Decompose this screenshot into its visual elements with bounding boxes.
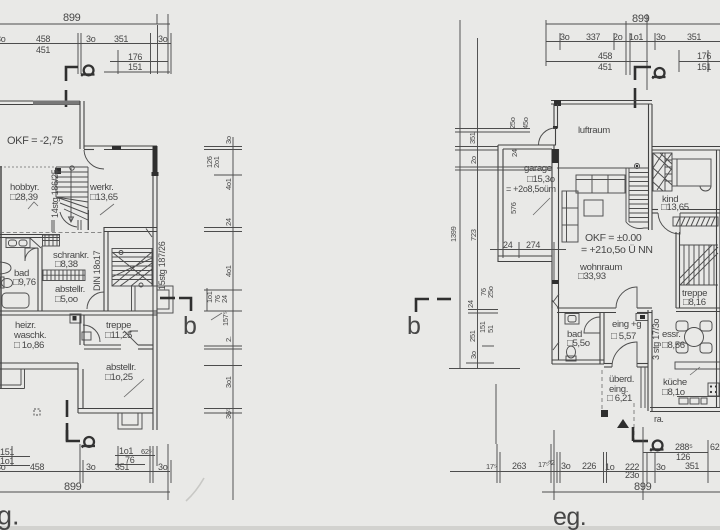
dim 899 top right [546, 23, 720, 25]
svg-text:□33,93: □33,93 [578, 271, 606, 282]
extension verticals top [77, 33, 79, 74]
svg-text:51: 51 [486, 325, 495, 333]
svg-text:3o: 3o [560, 32, 570, 42]
treppe stair [680, 245, 718, 285]
garage [497, 145, 499, 262]
svg-text:4o1: 4o1 [224, 265, 233, 277]
sofa left [562, 191, 578, 242]
section marker bottom right [632, 427, 635, 441]
svg-text:351: 351 [687, 32, 701, 42]
svg-text:3o1: 3o1 [224, 376, 233, 388]
svg-text:= +21o,5o Ü NN: = +21o,5o Ü NN [581, 244, 653, 256]
svg-text:274: 274 [526, 240, 540, 250]
svg-text:□13,65: □13,65 [90, 192, 118, 203]
mid wall [0, 310, 157, 312]
svg-text:3o: 3o [158, 34, 168, 44]
svg-text:garage: garage [524, 163, 552, 174]
luftraum right wall [648, 104, 650, 230]
bad door arc [25, 248, 38, 261]
vanity 2 sinks [6, 238, 41, 248]
svg-text:226: 226 [582, 461, 596, 471]
svg-text:25o: 25o [486, 286, 495, 298]
svg-text:3o: 3o [86, 34, 96, 44]
faint scan artifact curve [186, 478, 204, 501]
svg-text:899: 899 [64, 481, 82, 493]
door heizr [83, 325, 100, 342]
svg-text:OKF = -2,75: OKF = -2,75 [7, 135, 63, 147]
garage bottom wall [498, 255, 552, 257]
right vertical dim column x=233 [204, 137, 242, 500]
svg-text:17⁵: 17⁵ [486, 462, 497, 471]
svg-text:451: 451 [36, 45, 50, 55]
sink row [677, 397, 720, 405]
svg-text:351: 351 [685, 461, 699, 471]
svg-text:□28,39: □28,39 [10, 192, 38, 203]
svg-text:□8,38: □8,38 [55, 259, 78, 270]
bad bottom wall [552, 359, 604, 361]
section line b bottom [66, 400, 69, 417]
partition bad/eing [599, 313, 601, 364]
svg-text:176: 176 [697, 51, 711, 61]
right edge wall [716, 150, 718, 407]
rotated b symbol top [81, 66, 95, 77]
abstellr room [77, 363, 79, 413]
counter essr/küche [675, 362, 720, 369]
left edge wall [0, 166, 2, 388]
kind room top wall [652, 146, 720, 148]
svg-text:= +2o8,5oüm: = +2o8,5oüm [506, 184, 556, 194]
el panel box [636, 314, 648, 321]
svg-text:3o: 3o [656, 462, 666, 472]
svg-text:□ 5,57: □ 5,57 [611, 331, 636, 342]
svg-text:451: 451 [598, 62, 612, 72]
svg-text:15stg 187/26: 15stg 187/26 [157, 241, 167, 290]
svg-text:36⁵: 36⁵ [224, 408, 233, 419]
svg-text:□8,56: □8,56 [662, 340, 685, 351]
left vertical dims of right plan [449, 20, 530, 369]
eing bottom wall + door [604, 363, 612, 365]
eing right wall [647, 310, 649, 411]
svg-text:3o: 3o [158, 462, 168, 472]
svg-text:251: 251 [468, 330, 477, 342]
top wall right plan [551, 100, 652, 102]
top wall [0, 100, 80, 102]
svg-text:□9,76: □9,76 [13, 277, 36, 288]
svg-text:576: 576 [509, 202, 518, 214]
svg-text:337: 337 [586, 32, 600, 42]
svg-text:263: 263 [512, 461, 526, 471]
kind bottom wall + door [652, 209, 658, 211]
treppe bottom wall [676, 307, 720, 309]
lightwell below abstellr [118, 413, 142, 429]
svg-text:151: 151 [697, 62, 711, 72]
svg-text:2o: 2o [469, 156, 478, 164]
svg-text:24: 24 [466, 300, 475, 308]
svg-text:□13,65: □13,65 [661, 202, 689, 213]
luftraum left wall [553, 104, 555, 128]
svg-text:351: 351 [468, 132, 477, 144]
section marker right top [635, 67, 651, 80]
svg-text:24: 24 [510, 149, 519, 157]
section line through lightwell [160, 297, 175, 300]
svg-text:□5,oo: □5,oo [55, 294, 78, 305]
kind closet hatched [653, 153, 672, 191]
kind bed [672, 159, 711, 191]
svg-text:2.: 2. [224, 336, 233, 342]
wall right of schrankr [103, 227, 105, 311]
section marker b left [416, 299, 429, 312]
svg-text:□1o,25: □1o,25 [105, 372, 133, 383]
svg-text:b: b [407, 312, 421, 340]
small square symbol [34, 409, 40, 415]
svg-text:25o: 25o [508, 117, 517, 129]
svg-text:ra.: ra. [654, 414, 664, 424]
schrankr door frame marks [51, 220, 53, 232]
svg-text:24: 24 [503, 240, 513, 250]
step wall [84, 145, 157, 147]
svg-text:24: 24 [224, 218, 233, 226]
svg-text:62⁵: 62⁵ [710, 442, 720, 452]
treppe bottom wall + door [84, 344, 121, 346]
wall werkr left [88, 210, 90, 230]
svg-text:3o: 3o [561, 461, 571, 471]
wc top [565, 314, 579, 325]
door abstellr to hall [87, 292, 104, 309]
svg-text:723: 723 [469, 229, 478, 241]
küche bottom wall [650, 407, 720, 409]
svg-text:458: 458 [30, 462, 44, 472]
garage door lines [470, 166, 552, 168]
svg-text:3o: 3o [86, 462, 96, 472]
south wall heizr [0, 362, 78, 364]
svg-text:458: 458 [36, 34, 50, 44]
wohnraum bottom wall [557, 307, 616, 309]
svg-text:4o1: 4o1 [224, 178, 233, 190]
svg-text:176: 176 [128, 52, 142, 62]
svg-text:3 stg 17/3o: 3 stg 17/3o [651, 318, 661, 360]
dim ticks right of b [204, 288, 242, 311]
stair 14stg [55, 166, 88, 230]
svg-text:□ 1o,86: □ 1o,86 [14, 340, 44, 351]
svg-text:76: 76 [125, 455, 135, 465]
bevel at wall bottom [552, 300, 559, 308]
dim line second top [0, 43, 171, 45]
section marker b top [66, 67, 78, 81]
svg-text:3o: 3o [0, 34, 6, 44]
west wall window marks below garage [552, 280, 559, 284]
werkr bottom wall [104, 227, 157, 229]
dotted terrace line [0, 166, 61, 168]
svg-text:288⁵: 288⁵ [675, 442, 693, 452]
svg-text:luftraum: luftraum [578, 125, 610, 136]
stairwell 15stg [112, 229, 152, 312]
svg-text:□8,16: □8,16 [683, 297, 706, 308]
rotated b symbol bottom [82, 437, 96, 448]
hatched wardrobe block [43, 235, 60, 246]
svg-text:3o: 3o [656, 32, 666, 42]
right wall upper [79, 101, 81, 149]
north triangle [617, 419, 629, 428]
svg-text:24: 24 [220, 295, 229, 303]
svg-text:2o1: 2o1 [212, 156, 221, 168]
dashed line over bad/schrankr [0, 232, 104, 234]
svg-text:1o1: 1o1 [629, 32, 643, 42]
toilet ovals left [0, 262, 13, 288]
bathtub [2, 293, 29, 308]
svg-text:3o: 3o [224, 136, 233, 144]
door at luftraum left [553, 126, 558, 129]
svg-text:g.: g. [0, 501, 20, 530]
svg-text:458: 458 [598, 51, 612, 61]
outside stair left [0, 369, 25, 389]
svg-text:151: 151 [128, 62, 142, 72]
svg-text:45o: 45o [521, 117, 530, 129]
wc bottom [566, 346, 576, 361]
stove [708, 383, 719, 396]
svg-text:14stg 186/25: 14stg 186/25 [50, 169, 60, 218]
treppe room wall [675, 232, 677, 308]
svg-text:351: 351 [114, 34, 128, 44]
wardrobe rail [43, 270, 85, 281]
svg-text:157⁵: 157⁵ [221, 311, 230, 326]
entry steps [640, 367, 642, 408]
svg-text:eg.: eg. [553, 503, 586, 530]
svg-text:DIN 18o17: DIN 18o17 [92, 250, 102, 291]
svg-text:□5,5o: □5,5o [567, 338, 590, 349]
meter box [70, 314, 81, 323]
dim line 899 top [0, 23, 170, 25]
radiator below kind [673, 217, 718, 226]
bad room [551, 313, 553, 364]
coffee table [584, 200, 603, 216]
svg-text:3o: 3o [469, 351, 478, 359]
lightwell window right wall [153, 286, 173, 313]
door arc werkr [84, 150, 104, 169]
sofa top [576, 175, 625, 193]
luftraum bottom [557, 167, 648, 169]
treppe walls [79, 315, 81, 345]
right wall [152, 146, 154, 430]
svg-text:OKF = ±0.00: OKF = ±0.00 [585, 232, 642, 244]
svg-text:b: b [183, 312, 197, 340]
svg-text:□ 6,21: □ 6,21 [607, 393, 632, 404]
stair right of wohnraum [626, 164, 648, 229]
svg-text:1399: 1399 [449, 226, 458, 242]
svg-text:899: 899 [63, 12, 81, 24]
door wohnraum-eing [616, 287, 637, 308]
bad top wall [0, 234, 60, 236]
